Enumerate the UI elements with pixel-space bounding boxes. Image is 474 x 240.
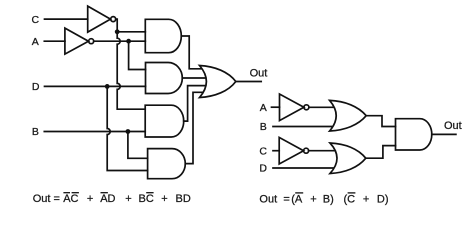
svg-text:Out: Out — [250, 68, 268, 80]
svg-text:D: D — [259, 163, 267, 175]
AND gate G4 (B D) — [148, 149, 186, 179]
wire C input — [45, 18, 88, 20]
AND gate G2 (A-bar D) — [146, 63, 183, 94]
svg-text:BC: BC — [139, 193, 154, 205]
node D junction — [105, 84, 110, 89]
wire D input to OR2 input 2 — [273, 167, 334, 169]
svg-text:A: A — [260, 102, 267, 114]
wire D input to AND2 input 2 — [45, 85, 146, 87]
wire U1 output to C-bar bus — [116, 19, 118, 32]
svg-text:C: C — [32, 14, 40, 26]
svg-text:+: + — [87, 193, 93, 205]
overbar A (equation 2) — [295, 192, 303, 194]
svg-text:+: + — [310, 193, 316, 205]
node C-bar junction — [115, 29, 120, 34]
svg-text:(C: (C — [344, 193, 356, 205]
svg-text:B): B) — [323, 193, 334, 205]
svg-text:AC: AC — [63, 193, 78, 205]
svg-text:D): D) — [377, 193, 389, 205]
svg-text:Out: Out — [444, 120, 462, 132]
svg-text:D: D — [32, 81, 40, 93]
svg-text:B: B — [32, 126, 39, 138]
svg-text:=: = — [283, 193, 289, 205]
wire G7 output to AND input 2 — [366, 146, 396, 159]
svg-text:(A: (A — [291, 193, 303, 205]
svg-text:C: C — [259, 145, 267, 157]
wire OR output — [236, 81, 261, 83]
wire C-bar to AND1 input 1 — [117, 31, 145, 33]
overbar C (equation 2) — [348, 192, 356, 194]
wire G6 output to AND input 1 — [366, 116, 395, 127]
wire A input — [44, 40, 65, 42]
inverter U3 (NOT A, right) — [280, 94, 304, 121]
wire G2 output to OR input 2 — [182, 77, 206, 79]
inverter U4 (NOT C, right) — [279, 137, 303, 164]
wire D bus vertical with hop to AND4 input 2 — [107, 86, 147, 170]
wire G4 output to OR input 4 — [185, 92, 204, 163]
svg-text:+: + — [161, 193, 167, 205]
svg-text:BD: BD — [176, 193, 191, 205]
inverter U2 (NOT A) — [65, 28, 89, 54]
overbar C (term 3) — [146, 192, 153, 194]
OR gate G5 (4-input sum) — [200, 66, 236, 98]
overbar C (term 1) — [72, 192, 79, 194]
wire B bus to AND4 input 1 — [128, 132, 148, 159]
svg-text:+: + — [363, 193, 369, 205]
overbar A (term 2) — [101, 192, 108, 194]
svg-text:AD: AD — [100, 193, 115, 205]
AND gate G8 (product) — [396, 119, 432, 150]
overbar A (term 1) — [63, 192, 70, 194]
svg-text:A: A — [32, 36, 39, 48]
node B junction — [126, 129, 131, 134]
wire C-bar bus vertical with hops — [117, 32, 145, 109]
wire G1 output to OR input 1 — [181, 36, 203, 69]
wire A input (right) — [272, 106, 280, 108]
wire C input (right) — [273, 150, 279, 152]
wire U4 output to OR2 input 1 — [309, 150, 336, 152]
wire B input to OR1 input 2 — [273, 126, 333, 128]
equation 1: Out = AC + AD + BC + BD with overbars — [33, 193, 191, 205]
OR gate G6 (A-bar + B) — [330, 100, 367, 131]
node A-bar junction — [126, 39, 131, 44]
equation 2: Out = (A + B) (C + D) with overbars — [259, 193, 388, 205]
svg-text:B: B — [260, 121, 267, 133]
inverter U1 (NOT C) — [88, 6, 111, 32]
svg-text:Out: Out — [259, 193, 277, 205]
AND gate G3 (B C-bar) — [145, 105, 184, 137]
svg-text:+: + — [125, 193, 131, 205]
svg-text:Out =: Out = — [33, 193, 60, 205]
wire G3 output to OR input 3 — [184, 86, 207, 122]
wire AND output — [432, 133, 456, 135]
OR gate G7 (C-bar + D) — [330, 143, 366, 174]
AND gate G1 (A-bar C-bar) — [145, 19, 181, 52]
wire U3 output to OR1 input 1 — [309, 106, 335, 108]
wire B input to AND3 input 2 — [44, 131, 145, 133]
wire A-bar bus to AND2 input 1 — [129, 41, 146, 69]
wire A-bar horizontal to AND1 input 2 — [94, 40, 146, 42]
